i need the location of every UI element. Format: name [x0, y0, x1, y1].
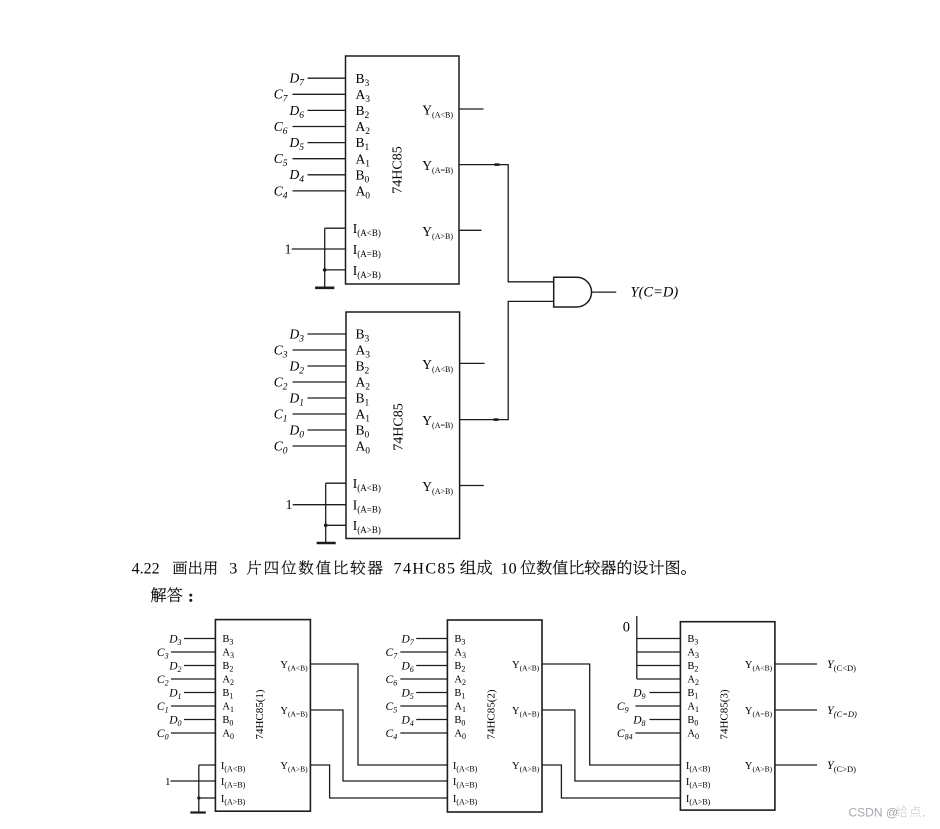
label C7 [274, 87, 289, 105]
label D3 (U3) [168, 633, 181, 647]
wire U2 input D1 to pin B1 [308, 397, 347, 399]
U1 pin label A3 [356, 87, 371, 105]
label C84 (U5) [617, 728, 633, 742]
U4 cascade input pin label I(A=B) [453, 777, 478, 789]
svg-text:A3: A3 [687, 648, 699, 660]
svg-text:0: 0 [623, 619, 630, 635]
U1 pin label A0 [356, 184, 371, 202]
U1 device label 74HC85 [391, 146, 406, 193]
label constant 0 (U5 upper inputs) [623, 619, 630, 635]
U5 pin label B1 [687, 688, 698, 700]
svg-text:C1: C1 [274, 406, 288, 424]
svg-text:I(A>B): I(A>B) [353, 263, 381, 280]
svg-text:A1: A1 [222, 702, 234, 714]
U2 pin label B1 [356, 391, 370, 409]
answer heading 解答： [151, 587, 192, 602]
U1 cascade input pin label I(A&lt;B) [353, 221, 381, 238]
svg-text:A1: A1 [454, 702, 466, 714]
svg-text:Y(A<B): Y(A<B) [512, 660, 540, 672]
U1 pin label B3 [356, 71, 370, 89]
svg-text:I(A=B): I(A=B) [686, 777, 711, 789]
svg-text:C84: C84 [617, 728, 633, 742]
label C5 [274, 151, 288, 169]
comparator U3 74HC85(1) body [215, 620, 310, 812]
U4 pin label B0 [454, 715, 465, 727]
wire U3 input D2 [184, 665, 215, 667]
label D2 (U3) [168, 660, 181, 674]
svg-text:Y(A=B): Y(A=B) [422, 413, 453, 430]
svg-text:Y(A<B): Y(A<B) [745, 660, 773, 672]
svg-text:I(A=B): I(A=B) [221, 777, 246, 789]
U3 output pin label Y(A&lt;B) [280, 660, 308, 672]
svg-text:74HC85: 74HC85 [394, 561, 457, 578]
svg-text:Y(A<B): Y(A<B) [422, 357, 453, 374]
U2 cascade input pin label I(A&gt;B) [353, 518, 381, 535]
wire U1 Y(A<B) stub [459, 108, 484, 110]
svg-text:Y(C=D): Y(C=D) [827, 703, 857, 719]
svg-text:1: 1 [286, 497, 293, 512]
U2 pin label A3 [356, 343, 371, 361]
wire U1 input C7 to pin A3 [293, 93, 346, 95]
U2 output pin label Y(A&lt;B) [422, 357, 453, 374]
wire U4 Y(A=B) to U5 I(A=B) [542, 710, 680, 781]
svg-text:Y(C>D): Y(C>D) [827, 758, 856, 774]
svg-text:D2: D2 [289, 358, 305, 376]
wire U2 ground bus vertical [325, 483, 327, 543]
U5 pin label A0 [687, 729, 699, 741]
U3 output pin label Y(A=B) [280, 706, 308, 718]
svg-text:B1: B1 [454, 688, 465, 700]
wire U4 input C5 [400, 705, 447, 707]
svg-text:A0: A0 [356, 439, 371, 457]
U2 cascade input pin label I(A&lt;B) [353, 476, 381, 493]
U4 pin label B1 [454, 688, 465, 700]
U1 pin label B1 [356, 135, 370, 153]
U2 pin label B0 [356, 423, 370, 441]
wire U2 I(A<B) strap from bus [326, 482, 346, 484]
svg-text:C0: C0 [274, 438, 288, 456]
svg-text:C6: C6 [386, 674, 398, 688]
svg-text:I(A=B): I(A=B) [353, 242, 381, 259]
svg-text:D1: D1 [168, 687, 181, 701]
svg-text:.: . [922, 805, 925, 819]
svg-text:D3: D3 [289, 326, 305, 344]
svg-text:I(A>B): I(A>B) [453, 794, 478, 806]
U1 output pin label Y(A&gt;B) [422, 224, 453, 241]
svg-text:C7: C7 [274, 87, 289, 105]
svg-text:I(A=B): I(A=B) [353, 498, 381, 515]
wire U3 input C2 [171, 678, 215, 680]
svg-text:C0: C0 [157, 728, 169, 742]
wire U2 input C1 to pin A1 [293, 413, 347, 415]
wire U5 input D9 [650, 692, 681, 694]
svg-text:A0: A0 [454, 729, 466, 741]
svg-text:4.22: 4.22 [132, 561, 160, 578]
svg-text:D2: D2 [168, 660, 181, 674]
svg-text:1: 1 [285, 242, 292, 257]
svg-text:1: 1 [165, 776, 171, 788]
wire U3 input C0 [171, 732, 215, 734]
svg-text:B2: B2 [222, 661, 233, 673]
U2 cascade input pin label I(A=B) [353, 498, 381, 515]
svg-text:3: 3 [229, 561, 237, 578]
U5 pin label A3 [687, 648, 699, 660]
wire U3 input D1 [184, 692, 215, 694]
svg-text:B1: B1 [687, 688, 698, 700]
wire U1 Y(A>B) stub [459, 229, 482, 231]
svg-text:A3: A3 [222, 648, 234, 660]
label C1 [274, 406, 288, 424]
svg-text:B0: B0 [222, 715, 233, 727]
svg-text:B3: B3 [687, 634, 698, 646]
svg-text:I(A<B): I(A<B) [353, 221, 381, 238]
comparator U4 74HC85(2) body [447, 620, 542, 812]
svg-text:D6: D6 [400, 660, 413, 674]
svg-text:B2: B2 [687, 661, 698, 673]
U3 pin label B2 [222, 661, 233, 673]
svg-text:74HC85(3): 74HC85(3) [719, 689, 731, 739]
wire U2 input C2 to pin A2 [293, 381, 347, 383]
junction tick on U1 Y(A=B) wire [495, 163, 500, 166]
svg-text:74HC85(2): 74HC85(2) [486, 689, 498, 739]
label C4 (U4) [386, 728, 398, 742]
label D0 [289, 422, 305, 440]
U1 output pin label Y(A&lt;B) [422, 103, 453, 120]
svg-text:I(A>B): I(A>B) [221, 794, 246, 806]
U4 pin label B3 [454, 634, 465, 646]
U5 pin label B0 [687, 715, 698, 727]
label C0 [274, 438, 288, 456]
wire U2 Y(A=B) to AND gate input B [460, 301, 554, 419]
wire U1 input D4 to pin B0 [308, 174, 346, 176]
label constant 1 (U2) [286, 497, 293, 512]
label D8 (U5) [632, 714, 645, 728]
svg-text:C2: C2 [274, 374, 288, 392]
U2 pin label A1 [356, 407, 371, 425]
svg-text:Y(A>B): Y(A>B) [512, 761, 540, 773]
wire U4 input D4 [416, 719, 447, 721]
U3 pin label A2 [222, 675, 234, 687]
U5 cascade input pin label I(A&lt;B) [686, 761, 711, 773]
U2 pin label B3 [356, 327, 370, 345]
svg-text:A0: A0 [222, 729, 234, 741]
U1 pin label A1 [356, 151, 371, 169]
wire U1 input D6 to pin B2 [308, 109, 346, 111]
U4 pin label A3 [454, 648, 466, 660]
label D4 (U4) [400, 714, 413, 728]
svg-text:B1: B1 [222, 688, 233, 700]
wire U3 ground bus vertical [198, 765, 200, 813]
wire U3 Y(A<B) to U4 I(A<B) [310, 664, 447, 765]
wire U1 input C6 to pin A2 [293, 126, 346, 128]
svg-text:Y(A=B): Y(A=B) [280, 706, 308, 718]
svg-text:C6: C6 [274, 119, 288, 137]
U4 output pin label Y(A&gt;B) [512, 761, 540, 773]
U2 pin label B2 [356, 359, 370, 377]
wire U1 ground bus vertical [324, 228, 326, 288]
svg-text:Y(A>B): Y(A>B) [422, 224, 453, 241]
svg-text:Y(A<B): Y(A<B) [422, 103, 453, 120]
svg-text:I(A=B): I(A=B) [453, 777, 478, 789]
U5 pin label B2 [687, 661, 698, 673]
U3 device label 74HC85(1) [254, 689, 266, 739]
U4 cascade input pin label I(A&lt;B) [453, 761, 478, 773]
label output Y(C=D) of AND gate [631, 285, 679, 301]
svg-text:B3: B3 [222, 634, 233, 646]
label D3 [289, 326, 305, 344]
label D0 (U3) [168, 714, 181, 728]
label D5 (U4) [400, 687, 413, 701]
label D1 [289, 390, 305, 408]
wire U5 zero bus vertical [636, 616, 638, 679]
wire U1 I(A>B) strap from bus [325, 269, 346, 271]
label C9 (U5) [617, 701, 629, 715]
junction U1 bus / I(A>B) [323, 268, 327, 272]
label D6 [289, 103, 305, 121]
svg-text:D3: D3 [168, 633, 181, 647]
label C2 (U3) [157, 674, 169, 688]
wire U2 input D2 to pin B2 [308, 365, 347, 367]
watermark CSDN @给点. [849, 805, 926, 819]
svg-text:A2: A2 [687, 675, 699, 687]
wire G1 output [592, 291, 617, 293]
U3 cascade input pin label I(A&gt;B) [221, 794, 246, 806]
U5 output pin label Y(A=B) [745, 706, 773, 718]
label constant 1 (U1) [285, 242, 292, 257]
svg-text:Y(A>B): Y(A>B) [280, 761, 308, 773]
svg-text:C9: C9 [617, 701, 629, 715]
svg-text:I(A>B): I(A>B) [353, 518, 381, 535]
label C3 (U3) [157, 647, 169, 661]
label D1 (U3) [168, 687, 181, 701]
svg-text:CSDN @: CSDN @ [849, 805, 899, 819]
label D7 [289, 71, 306, 89]
U2 pin label A2 [356, 375, 371, 393]
svg-text:I(A<B): I(A<B) [221, 761, 246, 773]
svg-text:74HC85: 74HC85 [391, 403, 406, 450]
U5 pin label A1 [687, 702, 699, 714]
wire U4 input C4 [400, 732, 447, 734]
wire U5 output stub (C=D) [775, 709, 817, 711]
label D5 [289, 135, 305, 153]
label final output Y(C&gt;D) [827, 758, 856, 774]
U4 pin label A2 [454, 675, 466, 687]
wire U2 Y(A<B) stub [460, 362, 485, 364]
wire U3 I(A<B) strap from bus [199, 764, 216, 766]
svg-text:A2: A2 [222, 675, 234, 687]
U3 pin label B0 [222, 715, 233, 727]
comparator U5 74HC85(3) body [680, 622, 775, 810]
svg-text:D8: D8 [632, 714, 645, 728]
svg-text:C7: C7 [386, 647, 399, 661]
svg-text:Y(A>B): Y(A>B) [745, 761, 773, 773]
svg-text:D7: D7 [289, 71, 306, 89]
wire U3 Y(A=B) to U4 I(A=B) [310, 710, 447, 781]
wire U2 I(A>B) strap from bus [326, 524, 346, 526]
svg-text:B2: B2 [454, 661, 465, 673]
U3 pin label A3 [222, 648, 234, 660]
svg-text:C5: C5 [386, 701, 398, 715]
label final output Y(C=D) [827, 703, 857, 719]
svg-text:D1: D1 [289, 390, 305, 408]
svg-text:74HC85(1): 74HC85(1) [254, 689, 266, 739]
U4 pin label A1 [454, 702, 466, 714]
svg-text:C3: C3 [157, 647, 169, 661]
problem text line 4.22 [132, 560, 686, 578]
svg-text:Y(C<D): Y(C<D) [827, 657, 856, 673]
wire U5 input C9 [635, 705, 680, 707]
wire U3 input D3 [184, 638, 215, 640]
AND gate G1 (2-input) [554, 277, 592, 307]
wire U2 input C3 to pin A3 [293, 349, 347, 351]
svg-text:D7: D7 [400, 633, 414, 647]
U4 cascade input pin label I(A&gt;B) [453, 794, 478, 806]
wire U1 input C5 to pin A1 [293, 158, 346, 160]
U1 pin label A2 [356, 119, 371, 137]
U4 pin label A0 [454, 729, 466, 741]
svg-text:D5: D5 [289, 135, 305, 153]
U1 cascade input pin label I(A=B) [353, 242, 381, 259]
label C1 (U3) [157, 701, 169, 715]
wire U2 input C0 to pin A0 [293, 445, 347, 447]
label C3 [274, 342, 288, 360]
U4 pin label B2 [454, 661, 465, 673]
junction tick on U2 Y(A=B) wire [494, 418, 499, 421]
comparator U2 74HC85 (lower 8-bit low nibble) body [346, 312, 460, 539]
wire U4 input C6 [400, 678, 447, 680]
wire U5 zero bus to pin B2 [637, 665, 681, 667]
U5 output pin label Y(A&lt;B) [745, 660, 773, 672]
label C7 (U4) [386, 647, 399, 661]
U3 pin label B3 [222, 634, 233, 646]
svg-text:C4: C4 [386, 728, 398, 742]
U3 pin label B1 [222, 688, 233, 700]
comparator U1 74HC85 (upper 8-bit high nibble) body [346, 56, 460, 284]
U2 device label 74HC85 [391, 403, 406, 450]
wire U1 Y(A=B) to AND gate input A [459, 165, 554, 282]
label D7 (U4) [400, 633, 414, 647]
wire U5 output stub (C&gt;D) [775, 764, 817, 766]
svg-text:Y(A<B): Y(A<B) [280, 660, 308, 672]
wire U1 I(A<B) strap from bus [325, 227, 346, 229]
U5 output pin label Y(A&gt;B) [745, 761, 773, 773]
svg-text:D4: D4 [289, 167, 305, 185]
wire U4 Y(A<B) to U5 I(A<B) [542, 664, 680, 765]
wire U5 zero bus to pin A2 [637, 678, 681, 680]
U5 device label 74HC85(3) [719, 689, 731, 739]
wire U3 input C1 [171, 705, 215, 707]
label C5 (U4) [386, 701, 398, 715]
wire logic-1 to U3 I(A=B) [171, 780, 216, 782]
label D4 [289, 167, 305, 185]
label C6 (U4) [386, 674, 398, 688]
U1 pin label B0 [356, 167, 370, 185]
U4 output pin label Y(A&lt;B) [512, 660, 540, 672]
svg-text:C3: C3 [274, 342, 288, 360]
svg-text:Y(A=B): Y(A=B) [422, 158, 453, 175]
wire U5 input C84 [635, 732, 680, 734]
svg-text:Y(A=B): Y(A=B) [512, 706, 540, 718]
svg-text:I(A<B): I(A<B) [453, 761, 478, 773]
U2 output pin label Y(A=B) [422, 413, 453, 430]
svg-text:Y(C=D): Y(C=D) [631, 285, 679, 301]
svg-text:A0: A0 [356, 184, 371, 202]
label C4 [274, 183, 288, 201]
U5 cascade input pin label I(A&gt;B) [686, 794, 711, 806]
svg-text:C5: C5 [274, 151, 288, 169]
wire U1 input C4 to pin A0 [293, 190, 346, 192]
U5 pin label A2 [687, 675, 699, 687]
svg-text:D5: D5 [400, 687, 413, 701]
svg-text:C1: C1 [157, 701, 169, 715]
ground symbol (U1) [315, 286, 334, 289]
label C6 [274, 119, 288, 137]
U2 output pin label Y(A&gt;B) [422, 479, 453, 496]
wire U4 input D5 [416, 692, 447, 694]
svg-text:D0: D0 [289, 422, 305, 440]
U3 cascade input pin label I(A&lt;B) [221, 761, 246, 773]
svg-text:B3: B3 [454, 634, 465, 646]
svg-text:B0: B0 [454, 715, 465, 727]
U4 device label 74HC85(2) [486, 689, 498, 739]
wire U3 Y(A>B) to U4 I(A>B) [310, 765, 447, 798]
svg-text:10: 10 [501, 561, 517, 578]
svg-text:B0: B0 [687, 715, 698, 727]
svg-text:D0: D0 [168, 714, 181, 728]
svg-text:C4: C4 [274, 183, 288, 201]
U3 output pin label Y(A&gt;B) [280, 761, 308, 773]
U3 pin label A0 [222, 729, 234, 741]
U5 pin label B3 [687, 634, 698, 646]
ground symbol (U2) [317, 542, 336, 545]
svg-text:A1: A1 [687, 702, 699, 714]
label D9 (U5) [632, 687, 645, 701]
wire U1 input D7 to pin B3 [308, 77, 346, 79]
ground symbol (U3) [190, 811, 206, 813]
svg-text:C2: C2 [157, 674, 169, 688]
wire U3 I(A>B) strap from bus [199, 797, 216, 799]
U2 pin label A0 [356, 439, 371, 457]
svg-text:I(A<B): I(A<B) [353, 476, 381, 493]
U3 cascade input pin label I(A=B) [221, 777, 246, 789]
wire logic-1 to U1 I(A=B) [292, 248, 346, 250]
label constant 1 (U3) [165, 776, 171, 788]
wire U4 input D7 [416, 638, 447, 640]
wire U4 input D6 [416, 665, 447, 667]
U1 pin label B2 [356, 103, 370, 121]
U3 pin label A1 [222, 702, 234, 714]
svg-text:A2: A2 [454, 675, 466, 687]
wire U1 input D5 to pin B1 [308, 142, 346, 144]
svg-text:Y(A=B): Y(A=B) [745, 706, 773, 718]
junction U3 bus / I(A>B) [197, 796, 200, 799]
svg-text:I(A>B): I(A>B) [686, 794, 711, 806]
svg-text:A0: A0 [687, 729, 699, 741]
wire U2 Y(A>B) stub [460, 485, 484, 487]
U5 cascade input pin label I(A=B) [686, 777, 711, 789]
svg-text:I(A<B): I(A<B) [686, 761, 711, 773]
wire U5 zero bus to pin A3 [637, 651, 681, 653]
U4 output pin label Y(A=B) [512, 706, 540, 718]
wire U2 input D0 to pin B0 [308, 429, 347, 431]
wire logic-1 to U2 I(A=B) [293, 504, 346, 506]
U1 output pin label Y(A=B) [422, 158, 453, 175]
wire U5 output stub (C&lt;D) [775, 663, 817, 665]
junction U2 bus / I(A>B) [324, 524, 328, 528]
label C0 (U3) [157, 728, 169, 742]
svg-text:D9: D9 [632, 687, 645, 701]
label D6 (U4) [400, 660, 413, 674]
